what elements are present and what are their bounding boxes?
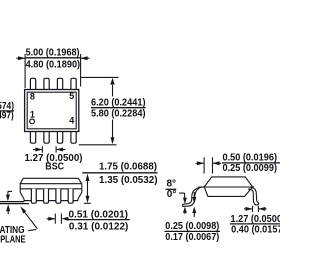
fraction line bbox=[166, 188, 177, 190]
tick right bbox=[60, 214, 62, 224]
fraction line bbox=[0, 110, 14, 112]
arrow left bbox=[18, 56, 25, 60]
pin bottom 1 bbox=[30, 132, 35, 144]
down arrow bbox=[192, 197, 196, 204]
fraction line bbox=[66, 219, 129, 221]
tick right bbox=[55, 146, 57, 152]
arrow toward right tick bbox=[56, 148, 63, 152]
pin bottom 4 bbox=[71, 132, 76, 144]
body bottom line bbox=[24, 200, 78, 202]
svg-text:4: 4 bbox=[69, 115, 74, 125]
svg-text:0.25 (0.0099): 0.25 (0.0099) bbox=[223, 163, 278, 174]
angle up arrow bbox=[183, 207, 187, 213]
body outline bbox=[20, 178, 82, 200]
ext line bottom bbox=[79, 144, 117, 146]
pin1 indicator circle bbox=[30, 119, 35, 124]
body outer rect bbox=[25, 90, 79, 132]
side pin 2 bbox=[44, 189, 49, 203]
svg-text:8: 8 bbox=[30, 92, 35, 102]
fraction line bbox=[91, 107, 146, 109]
body parting line bbox=[20, 188, 82, 190]
pin top 5 bbox=[71, 78, 76, 89]
ext line top bbox=[81, 76, 119, 78]
svg-text:0.25 (0.0098): 0.25 (0.0098) bbox=[165, 221, 219, 232]
svg-text:0.40 (0.0157): 0.40 (0.0157) bbox=[231, 224, 280, 235]
side pin 1 bbox=[31, 189, 36, 203]
fraction line bbox=[222, 162, 280, 164]
pin top 8 bbox=[30, 78, 35, 89]
svg-text:BSC: BSC bbox=[45, 161, 64, 172]
svg-text:1: 1 bbox=[30, 110, 35, 120]
fraction line bbox=[230, 223, 280, 225]
tick right bbox=[257, 206, 259, 212]
fraction line bbox=[165, 230, 221, 232]
seating plane line bbox=[0, 203, 29, 205]
body inner rect bbox=[27, 92, 76, 129]
mid line bbox=[198, 186, 254, 188]
tick left bbox=[54, 214, 56, 224]
svg-text:1.27 (0.0500): 1.27 (0.0500) bbox=[231, 214, 281, 225]
svg-text:0.50 (0.0196): 0.50 (0.0196) bbox=[223, 153, 278, 164]
arrow toward right tick bbox=[61, 217, 68, 221]
svg-text:5.00 (0.1968): 5.00 (0.1968) bbox=[26, 47, 80, 58]
fraction line bbox=[25, 57, 80, 59]
svg-text:6.20 (0.2441): 6.20 (0.2441) bbox=[91, 97, 146, 108]
svg-text:0°: 0° bbox=[167, 189, 177, 200]
tick right bbox=[212, 157, 214, 173]
arrow toward right tick bbox=[213, 161, 220, 165]
pin bottom 2 bbox=[44, 132, 49, 144]
svg-text:0.31 (0.0122): 0.31 (0.0122) bbox=[69, 221, 128, 232]
coplanarity upper line bbox=[0, 201, 24, 203]
arrow right bbox=[81, 56, 88, 60]
dim up arrow bbox=[86, 174, 90, 181]
svg-text:PLANE: PLANE bbox=[0, 235, 26, 246]
tick left bbox=[252, 206, 254, 212]
arrow toward left tick bbox=[246, 207, 253, 211]
svg-text:1.35 (0.0532): 1.35 (0.0532) bbox=[99, 175, 158, 186]
pin top 6 bbox=[57, 78, 62, 89]
left lead bbox=[183, 187, 204, 205]
end view body bbox=[204, 177, 252, 197]
seating plane leader arrow bbox=[20, 206, 26, 213]
tick left bbox=[203, 157, 205, 173]
pin top 7 bbox=[44, 78, 49, 89]
dim down arrow bbox=[86, 196, 90, 203]
arrow toward left tick bbox=[35, 148, 42, 152]
svg-text:0.17 (0.0067): 0.17 (0.0067) bbox=[165, 232, 219, 243]
body chamfer line bbox=[20, 183, 82, 185]
dim line down arrow bbox=[111, 137, 115, 144]
svg-text:5.80 (0.2284): 5.80 (0.2284) bbox=[91, 108, 146, 119]
dim line up arrow bbox=[110, 78, 114, 85]
arrow toward left tick bbox=[197, 161, 204, 165]
up arrow bbox=[192, 207, 196, 214]
svg-text:8°: 8° bbox=[167, 179, 177, 190]
ext line right bbox=[80, 54, 82, 87]
arrow toward right tick bbox=[258, 207, 265, 211]
coplanarity up arrow bbox=[6, 204, 10, 211]
arrow toward left tick bbox=[48, 217, 55, 221]
svg-text:1.75 (0.0688): 1.75 (0.0688) bbox=[99, 162, 157, 173]
svg-text:5: 5 bbox=[69, 91, 74, 101]
svg-text:3.80 (0.1497): 3.80 (0.1497) bbox=[0, 111, 14, 122]
fraction line bbox=[82, 172, 157, 174]
seating ext line right bbox=[84, 202, 91, 204]
right lead bbox=[248, 187, 259, 205]
pin bottom 3 bbox=[57, 132, 62, 144]
side pin 3 bbox=[56, 189, 61, 203]
leader L line bbox=[179, 192, 185, 194]
angle down arrow bbox=[183, 198, 187, 204]
svg-text:4.80 (0.1890): 4.80 (0.1890) bbox=[26, 60, 81, 71]
svg-text:0.51 (0.0201): 0.51 (0.0201) bbox=[69, 209, 129, 220]
ext line left bbox=[24, 54, 26, 88]
tick left bbox=[41, 146, 43, 152]
side pin 4 bbox=[68, 189, 73, 203]
coplanarity down arrow bbox=[6, 195, 10, 202]
